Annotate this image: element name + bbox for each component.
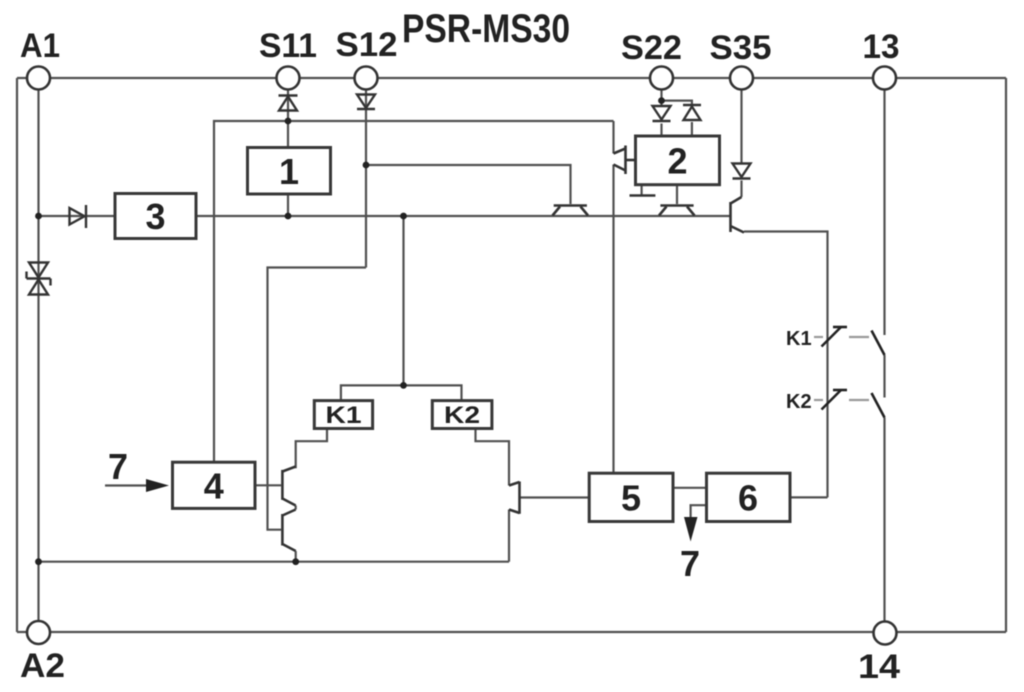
wire box 2 left pin terminator stem — [640, 185, 642, 196]
diode under S35 (cathode down) — [733, 164, 751, 179]
terminal S12 — [355, 67, 378, 90]
terminal 14 — [874, 622, 897, 645]
contact K2 in 13-14 path — [872, 393, 885, 418]
transistor Q4 (under S35 diode) — [731, 197, 745, 233]
wire box 1 bottom to main node — [287, 194, 289, 216]
wire box 4 to Q5 base — [255, 484, 281, 486]
relay coil K2 — [432, 401, 492, 429]
wire Q3 collector-emitter vertical x=613.5 — [612, 121, 614, 154]
wire A1 vertical — [37, 78, 39, 633]
wire coil feed vertical — [402, 216, 404, 385]
diode S22 right (cathode up) — [683, 105, 701, 120]
box 2 — [636, 136, 720, 185]
transistor Q6 (lower, driven by S12 path) — [282, 510, 295, 552]
svg-text:S35: S35 — [710, 29, 772, 67]
wire right border — [1005, 78, 1007, 632]
wire 13 vertical to K1 contact — [883, 78, 885, 335]
transistor Q5 (upper, driven by box 4) — [282, 467, 295, 506]
contact K1 in 13-14 path — [872, 331, 885, 356]
wire arrow 7 into box 4 — [105, 484, 148, 486]
svg-text:5: 5 — [621, 478, 641, 519]
wire Q5 emitter to Q6 collector — [295, 506, 297, 510]
relay coil K1 — [314, 401, 372, 429]
wire Q7 base to box 5 — [520, 496, 590, 498]
node A1-main — [35, 213, 42, 220]
wire top bus — [17, 77, 1006, 79]
transistors — [282, 146, 744, 552]
terminal S35 — [730, 67, 753, 90]
svg-text:13: 13 — [863, 28, 900, 66]
svg-text:7: 7 — [680, 543, 700, 584]
svg-text:1: 1 — [279, 151, 299, 192]
box 6 — [707, 473, 791, 521]
wire Q7 emitter down to bottom node — [508, 510, 510, 562]
wire Q6 emitter to bottom node — [295, 551, 297, 562]
box 3 — [115, 194, 196, 239]
node A1-bottom node — [35, 558, 42, 565]
terminal 13 — [873, 67, 896, 90]
box 5 — [589, 473, 673, 521]
wire S35 vertical — [740, 78, 742, 163]
wire S22 vertical left branch — [660, 78, 662, 106]
terminal A2 — [27, 621, 50, 644]
terminals — [27, 67, 897, 645]
node box1-main — [285, 213, 292, 220]
wire upper horizontal y=121 — [214, 121, 614, 462]
suppressor Z1 on A1 line — [27, 263, 51, 295]
svg-text:6: 6 — [738, 478, 758, 519]
function blocks — [115, 136, 790, 522]
svg-text:K2: K2 — [786, 391, 812, 413]
svg-text:S12: S12 — [336, 26, 398, 64]
wire bottom bus — [17, 631, 1006, 633]
terminator bar under box 2 left pin — [630, 194, 656, 197]
box 4 — [173, 462, 256, 508]
arrow 7 out of box 6 — [680, 517, 700, 584]
contact K1 marker on feedback line — [822, 327, 848, 347]
node S22 branch — [658, 97, 665, 104]
wire S12 vertical — [365, 78, 367, 268]
svg-text:K2: K2 — [444, 402, 480, 429]
mechanical link dashes K1 — [814, 336, 869, 338]
transistor Q7 (beside box 5) — [509, 482, 520, 514]
node coil feed on main — [400, 213, 407, 220]
node Q6 emitter-bottom node — [292, 558, 299, 565]
wire K1 coil to Q5 collector — [296, 429, 327, 469]
wire bottom internal node — [39, 561, 510, 563]
svg-text:S22: S22 — [621, 29, 682, 67]
svg-text:7: 7 — [108, 446, 128, 487]
svg-text:K1: K1 — [786, 328, 812, 350]
wire coil feed horizontal — [341, 385, 462, 400]
node coil split — [400, 382, 407, 389]
diode S22 left (cathode down) — [653, 106, 671, 121]
wire S12 branch to Q1 base — [366, 165, 571, 204]
transistor Q2 (base from box 2) — [659, 206, 695, 216]
diode under S11 (cathode up) — [279, 96, 298, 111]
diode D1 series with box 3 — [70, 205, 87, 228]
wire box 5 top feed — [612, 472, 614, 474]
transistor Q1 (base fed from S12 line) — [553, 206, 589, 216]
wire K2 coil down to Q7 — [476, 429, 510, 486]
svg-text:K1: K1 — [326, 402, 362, 429]
node S12 branch — [363, 162, 370, 169]
mechanical link dashes K2 — [814, 399, 869, 401]
wire left border — [16, 78, 18, 632]
svg-text:14: 14 — [858, 648, 900, 686]
svg-text:4: 4 — [204, 466, 224, 507]
svg-text:A1: A1 — [20, 27, 60, 65]
wire S22 right branch — [662, 101, 692, 105]
wire box 6 to contact chain — [790, 496, 828, 498]
wire Q2 base from box 2 — [676, 185, 678, 204]
svg-text:A2: A2 — [20, 647, 65, 685]
wire S11 to box 1 — [287, 78, 289, 148]
wire main horizontal node from A1 through boxes 3 — [39, 215, 731, 217]
diodes and suppressor — [27, 95, 751, 295]
wire S12 path to Q6 base — [268, 268, 367, 530]
wire Q4 emitter to contact chain — [744, 232, 828, 498]
node S11-upper wire — [285, 118, 292, 125]
svg-text:2: 2 — [667, 141, 687, 182]
svg-text:3: 3 — [145, 196, 165, 237]
wire box 5 to box 6 — [673, 487, 707, 489]
arrow 7 into box 4 — [108, 446, 169, 492]
wire between contacts — [883, 355, 885, 398]
svg-text:S11: S11 — [259, 27, 317, 65]
diode under S12 (cathode down) — [357, 95, 375, 110]
terminal A1 — [27, 67, 50, 90]
wire box 6 step out to arrow 7 — [691, 505, 707, 517]
svg-text:PSR-MS30: PSR-MS30 — [402, 7, 570, 51]
box 1 — [248, 148, 331, 195]
contact K2 marker on feedback line — [822, 390, 848, 410]
terminal S22 — [650, 67, 673, 90]
relay contacts — [822, 327, 885, 418]
terminal S11 — [277, 67, 300, 90]
transistor Q3 (beside box 2) — [614, 146, 636, 175]
wire K2 contact to 14 — [883, 418, 885, 633]
